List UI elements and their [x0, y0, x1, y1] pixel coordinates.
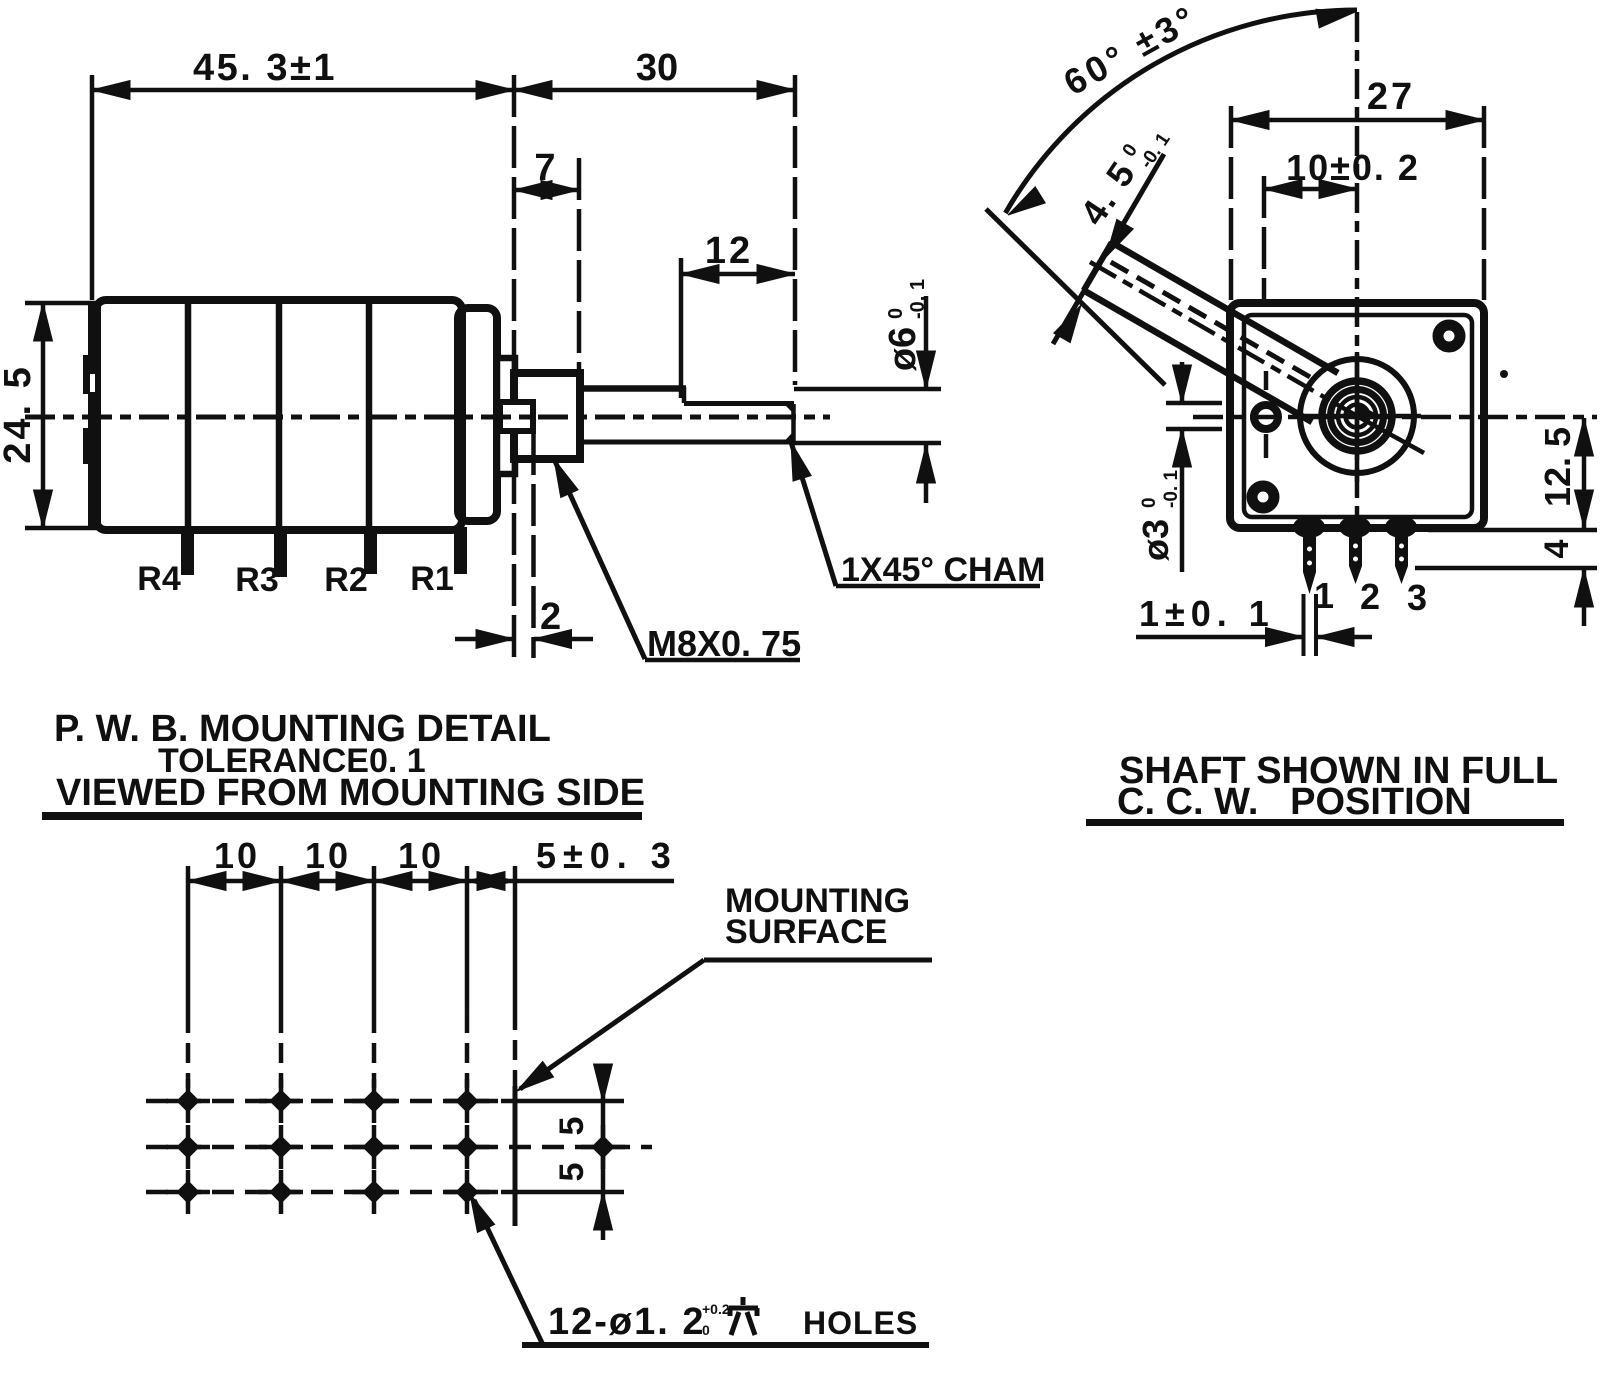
svg-text:0: 0 — [702, 1322, 710, 1338]
svg-text:C. C. W. POSITION: C. C. W. POSITION — [1117, 781, 1472, 823]
small circle tick top — [1264, 371, 1269, 390]
dim text 4.5 — [1072, 114, 1175, 235]
pwb row line 2 — [146, 1145, 652, 1150]
dim 24.5 bottom extension line — [25, 526, 98, 531]
bushing circle outer — [1300, 359, 1414, 473]
hole 7 — [363, 1136, 385, 1158]
inner circle 1 — [1338, 397, 1376, 435]
hole 6 — [270, 1136, 292, 1158]
svg-text:HOLES: HOLES — [803, 1305, 918, 1341]
pwb dim 5 5 arrow line — [601, 1066, 606, 1102]
svg-text:10: 10 — [305, 835, 351, 876]
svg-text:3: 3 — [1407, 577, 1427, 618]
shaft flat wedge — [1357, 404, 1381, 416]
svg-text:R1: R1 — [410, 560, 453, 598]
svg-text:R4: R4 — [137, 560, 181, 598]
pwb row line 3 — [146, 1190, 503, 1195]
square body inner — [1244, 315, 1472, 517]
body main rounded rect — [96, 300, 462, 530]
gang divider 3 — [366, 303, 373, 527]
left lug lower — [83, 428, 96, 464]
mounting washer — [497, 358, 515, 474]
svg-text:45. 3±1: 45. 3±1 — [193, 47, 337, 89]
svg-text:7: 7 — [534, 147, 555, 189]
svg-text:R3: R3 — [235, 561, 278, 599]
dim dia3 arrow lines — [1180, 362, 1185, 403]
front pin 3 — [1395, 528, 1408, 566]
svg-text:12. 5: 12. 5 — [1537, 427, 1578, 507]
svg-text:ø3: ø3 — [1135, 519, 1176, 561]
front shaft flat hidden line — [1102, 257, 1310, 377]
front pin 3 shoulder — [1385, 516, 1417, 538]
pwb holes grid — [166, 1079, 625, 1214]
pin R2 — [364, 527, 377, 574]
dim 24.5 top extension line — [25, 301, 98, 306]
front pin 2 shoulder — [1339, 516, 1371, 538]
kanji hole — [729, 1297, 758, 1335]
dim 27 left extension — [1229, 106, 1234, 300]
svg-text:10±0. 2: 10±0. 2 — [1286, 147, 1420, 188]
hole 9 — [177, 1181, 199, 1203]
shaft bottom edge — [580, 440, 794, 445]
pin R4 — [181, 527, 194, 575]
text 60+-3 — [1057, 0, 1205, 103]
dim dia6 top extension line — [794, 387, 941, 392]
mounting hole bottom left — [1252, 486, 1274, 508]
dim line 27 — [1231, 118, 1484, 123]
dim 30 right extension line — [793, 75, 798, 385]
pilot boss — [500, 402, 533, 431]
front shaft top edge — [1111, 242, 1338, 373]
svg-text:VIEWED FROM MOUNTING SIDE: VIEWED FROM MOUNTING SIDE — [56, 772, 645, 814]
pwb dim text 5 a — [553, 1117, 591, 1136]
mounting hole top right — [1438, 325, 1460, 347]
square body outer — [1230, 303, 1484, 528]
inner circle 2 — [1346, 405, 1369, 428]
svg-text:-0. 1: -0. 1 — [907, 279, 929, 319]
svg-text:+0.2: +0.2 — [702, 1301, 730, 1317]
svg-text:5: 5 — [553, 1163, 591, 1182]
svg-text:-0. 1: -0. 1 — [1161, 470, 1182, 508]
svg-text:27: 27 — [1367, 76, 1415, 118]
pwb top dim line — [188, 879, 674, 884]
svg-text:1±0. 1: 1±0. 1 — [1139, 593, 1275, 634]
front shaft axis centerline — [1090, 262, 1357, 416]
note underline — [1086, 819, 1564, 826]
leader M8X0.75 — [554, 459, 645, 659]
small circle tick bottom — [1264, 434, 1269, 458]
dim line 12.5 — [1582, 418, 1587, 528]
pwb row line 1 — [146, 1099, 503, 1104]
knurl ring — [1322, 381, 1392, 451]
square vertical centerline — [1355, 12, 1360, 565]
dim line 45.3 — [92, 88, 514, 93]
dim line 10 — [1264, 187, 1357, 192]
60 degree arc — [1005, 10, 1357, 213]
svg-text:24. 5: 24. 5 — [0, 364, 39, 464]
dim 4.5 line — [1053, 154, 1164, 344]
label underline — [522, 1342, 929, 1348]
stray dot — [1500, 370, 1508, 378]
dim 12 left extension line — [679, 258, 684, 398]
svg-text:2: 2 — [540, 596, 561, 638]
svg-text:10: 10 — [214, 835, 260, 876]
dim dia3 bottom extension — [1166, 427, 1222, 432]
front pin 1 — [1303, 528, 1316, 572]
shaft top edge — [580, 385, 686, 392]
pwb column line 1 — [186, 866, 191, 1013]
svg-text:SURFACE: SURFACE — [725, 913, 887, 951]
svg-text:5±0. 3: 5±0. 3 — [536, 835, 678, 876]
dim text 12.5 — [1537, 427, 1578, 507]
shaft flat edge — [684, 401, 794, 406]
hole 11 — [363, 1181, 385, 1203]
side view centerline — [25, 415, 830, 420]
dim line 24.5 — [41, 303, 46, 528]
hole 10 — [270, 1181, 292, 1203]
shaft flat step — [682, 387, 687, 403]
dim text 24.5 — [0, 364, 39, 464]
dim 1+-0.1 extension lines — [1302, 594, 1306, 656]
svg-text:M8X0. 75: M8X0. 75 — [647, 623, 801, 664]
dim line 30 — [514, 88, 795, 93]
dim text dia3 — [1135, 470, 1182, 561]
dim 45.3 / 30 shared extension line — [512, 75, 517, 373]
svg-text:12-ø1. 2: 12-ø1. 2 — [548, 1301, 706, 1343]
shaft chamfer top — [787, 404, 794, 411]
svg-text:2: 2 — [1360, 576, 1380, 617]
shaft axis extension lower right — [1357, 416, 1424, 453]
front pin 1 shoulder — [1293, 516, 1325, 538]
dim line 1+-0.1 — [1136, 635, 1303, 640]
svg-text:ø6: ø6 — [882, 327, 924, 371]
leader 12 holes — [474, 1200, 543, 1345]
dim dia6 bottom extension line — [794, 441, 941, 446]
dim 10 left extension — [1262, 176, 1267, 300]
pwb column line 3 — [372, 866, 377, 1013]
dim 27 right extension — [1482, 106, 1487, 300]
pin R1 — [454, 527, 467, 574]
gang divider 1 — [185, 303, 192, 527]
dim dia3 top extension — [1166, 401, 1222, 406]
hole 13 — [592, 1136, 614, 1158]
svg-text:R2: R2 — [324, 561, 367, 599]
dim 7 right extension line — [577, 158, 582, 373]
front shaft end face — [1083, 242, 1111, 290]
dim text 4 — [1538, 539, 1576, 558]
dim 2 right extension line — [531, 433, 536, 658]
dim line 2 — [455, 637, 514, 642]
svg-text:0: 0 — [1139, 497, 1160, 508]
square horizontal centerline — [1193, 415, 1597, 420]
hole 5 — [177, 1136, 199, 1158]
dim 2 left extension line — [512, 462, 517, 658]
threaded bushing M8 — [514, 373, 580, 459]
dim dia6 arrow lines — [924, 296, 929, 389]
anti-rotation small circle — [1254, 405, 1278, 429]
dim 4 bottom extension — [1415, 566, 1597, 571]
leader 1X45 CHAM — [791, 442, 836, 586]
left lug upper — [83, 355, 96, 394]
body left end plate — [88, 302, 101, 528]
arc extension line — [986, 209, 1165, 385]
pwb column line 4 — [465, 866, 470, 1013]
note underline — [42, 812, 642, 820]
svg-text:10: 10 — [398, 835, 444, 876]
circle crosshair horizontal — [1293, 414, 1421, 419]
pwb column line 2 — [279, 866, 284, 1013]
circle crosshair vertical — [1355, 352, 1360, 482]
svg-text:5: 5 — [553, 1117, 591, 1136]
dim line 4 — [1582, 569, 1587, 626]
svg-text:4: 4 — [1538, 539, 1576, 558]
dim 12.5 bottom extension — [1428, 528, 1597, 533]
pwb mounting surface line — [513, 866, 518, 1010]
end cap — [458, 308, 497, 521]
svg-text:1X45° CHAM: 1X45° CHAM — [841, 551, 1045, 589]
hole 8 — [456, 1136, 478, 1158]
shaft end face — [791, 404, 796, 441]
svg-text:30: 30 — [636, 47, 678, 89]
gang divider 2 — [276, 303, 283, 527]
svg-text:0: 0 — [885, 308, 907, 319]
shaft chamfer bottom — [787, 435, 794, 442]
dim line 7 — [514, 188, 579, 193]
dim 45.3 left extension line — [90, 75, 95, 300]
dim text dia6 — [882, 279, 929, 371]
hole 1 — [177, 1090, 199, 1112]
hole 2 — [270, 1090, 292, 1112]
hole 12 — [456, 1181, 478, 1203]
hole 4 — [456, 1090, 478, 1112]
front shaft bottom edge — [1083, 290, 1312, 422]
leader MOUNTING SURFACE — [704, 958, 932, 963]
svg-text:12: 12 — [705, 230, 753, 272]
front pin 2 — [1349, 528, 1362, 566]
pin R3 — [274, 527, 287, 577]
dim line 12 — [681, 272, 795, 277]
pwb dim text 5 b — [553, 1163, 591, 1182]
hole 3 — [363, 1090, 385, 1112]
